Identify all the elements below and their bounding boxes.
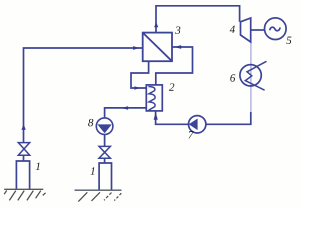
ground (production well) <box>4 189 45 200</box>
injection well casing 1 <box>99 163 111 190</box>
valve on production well 1 <box>18 143 29 156</box>
flow arrow: toward injection pump 8 <box>121 106 128 110</box>
wire: preheater 2 top to evaporator 3 right inlet (working fluid loop) <box>156 47 193 85</box>
wire: pump 8 to valve of injection well <box>104 134 106 146</box>
flow arrow: into evaporator 3 left side <box>133 46 139 50</box>
wire: production valve to well casing <box>23 155 25 161</box>
label 8 (injection pump) <box>88 119 93 126</box>
label 4 (turbine) <box>230 26 235 33</box>
label 7 (pump) <box>189 131 194 138</box>
wire: turbine to generator shaft <box>251 29 265 31</box>
wire: preheater 2 left bottom outlet to injection pump 8 <box>105 108 147 119</box>
flow arrow: into evaporator 3 right side <box>175 45 182 49</box>
ground (injection well) <box>75 190 122 201</box>
label 5 (generator) <box>286 37 291 44</box>
label 3 (evaporator) <box>175 26 180 33</box>
heat exchanger (evaporator) 3 <box>143 33 172 62</box>
flow arrow: up into preheater 2 bottom <box>154 112 158 119</box>
condenser 6 <box>240 61 267 90</box>
label 1 (injection well) <box>90 167 94 174</box>
pump 7 <box>189 116 206 133</box>
wire: condenser outlet to pump 7 and up into preheater 2 bottom <box>156 111 251 124</box>
wire: production well 1 up and to evaporator 3 left inlet <box>24 48 143 143</box>
label 2 (preheater) <box>169 83 174 90</box>
production well casing 1 <box>16 161 29 189</box>
wire: turbine 4 exhaust down through condenser 6 (faded thin segment) <box>250 42 252 113</box>
label 1 (production well) <box>36 163 40 170</box>
wire: evaporator 3 bottom to preheater 2 left top inlet <box>131 61 149 88</box>
heat exchanger (preheater) 2 <box>146 85 162 111</box>
valve on injection well 1 <box>99 146 110 158</box>
flow arrow: up the production riser <box>21 124 25 129</box>
wire: valve to injection well casing <box>104 158 106 163</box>
injection pump 8 <box>96 118 113 135</box>
turbine 4 <box>241 18 251 42</box>
wire: evaporator 3 top to turbine 4 (top pipe) <box>156 6 240 33</box>
generator 5 <box>265 18 287 40</box>
flow arrow: into preheater 2 left top <box>134 86 139 90</box>
flow arrow: up the evaporator 3 top stub <box>154 22 158 27</box>
label 6 (condenser) <box>230 74 235 81</box>
